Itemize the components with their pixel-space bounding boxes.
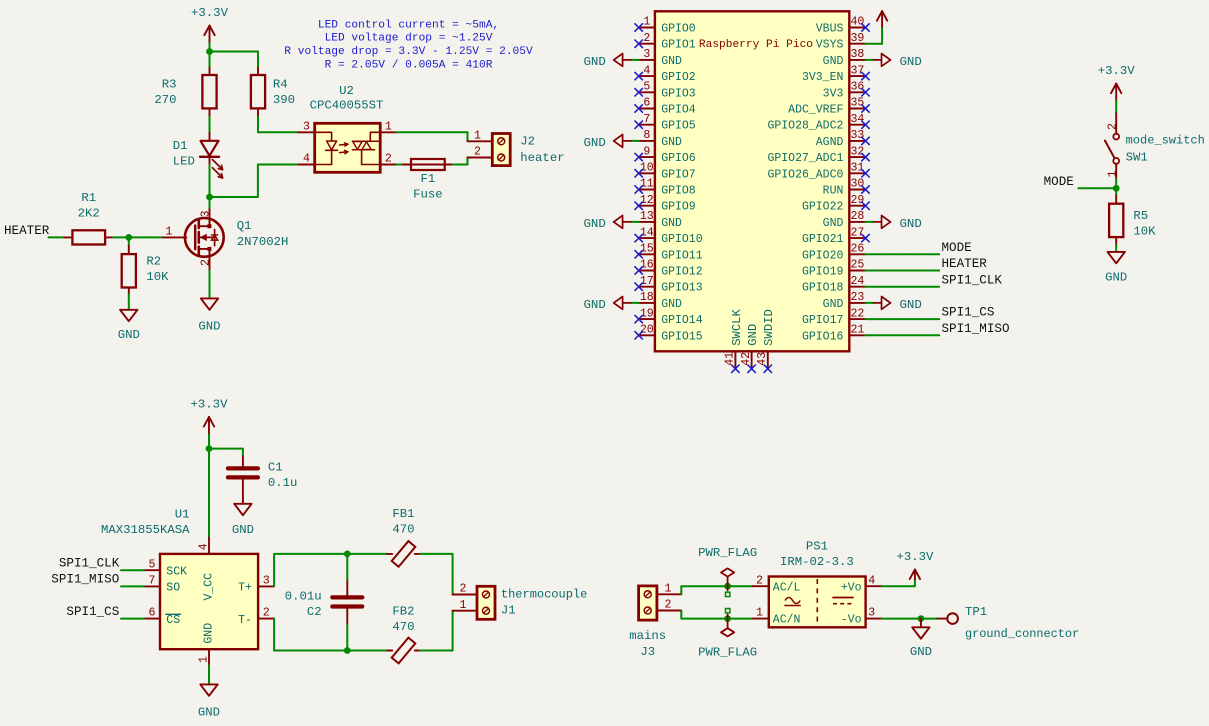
svg-text:CPC40055ST: CPC40055ST (310, 99, 384, 113)
svg-text:3V3_EN: 3V3_EN (802, 71, 843, 84)
pin 2 of Pico (GPIO1) (639, 32, 696, 52)
svg-text:3V3: 3V3 (823, 87, 844, 100)
no-connect X (861, 169, 869, 177)
svg-text:14: 14 (640, 226, 654, 239)
wire (258, 117, 299, 133)
svg-text:PWR_FLAG: PWR_FLAG (698, 546, 757, 560)
svg-text:AC/L: AC/L (773, 581, 801, 594)
svg-text:GND: GND (823, 55, 844, 68)
pin 14 of Pico (GPIO10) (639, 226, 703, 246)
no-connect X (635, 331, 643, 339)
ground (232, 504, 254, 537)
svg-text:GPIO18: GPIO18 (802, 282, 844, 295)
svg-text:+3.3V: +3.3V (896, 550, 934, 564)
no-connect X (861, 72, 869, 80)
svg-text:270: 270 (154, 93, 176, 107)
pin 12 of Pico (GPIO9) (639, 194, 696, 214)
global label GND (583, 216, 630, 231)
svg-text:LED voltage drop = ~1.25V: LED voltage drop = ~1.25V (325, 33, 493, 45)
svg-text:heater: heater (520, 151, 564, 165)
no-connect X (635, 266, 643, 274)
wire (921, 618, 938, 620)
svg-text:GPIO0: GPIO0 (661, 23, 696, 36)
connector J2 heater (492, 134, 564, 166)
svg-text:GND: GND (900, 217, 922, 231)
connector J1 pin 1 (453, 599, 477, 612)
wire (630, 140, 639, 142)
svg-text:2: 2 (200, 259, 213, 266)
pin 4 (V_CC) of U1 (198, 538, 211, 554)
junction (344, 647, 351, 654)
svg-text:1: 1 (165, 226, 172, 239)
wire (866, 221, 874, 223)
svg-text:GND: GND (661, 136, 682, 149)
svg-text:3: 3 (303, 120, 310, 133)
svg-text:1: 1 (198, 656, 211, 663)
svg-text:22: 22 (850, 307, 864, 320)
global label GND (874, 54, 922, 69)
svg-text:MAX31855KASA: MAX31855KASA (101, 523, 190, 537)
svg-text:-Vo: -Vo (841, 614, 862, 627)
wire (1078, 187, 1116, 189)
svg-text:17: 17 (640, 275, 654, 288)
pin 4 (+Vo) of PS1 (866, 574, 882, 587)
wire (866, 59, 874, 61)
svg-text:4: 4 (303, 153, 310, 166)
connector J3 mains (629, 586, 666, 659)
pin 17 of Pico (GPIO13) (639, 275, 703, 295)
pin 6 (CS) of U1 (144, 607, 160, 620)
ground (118, 310, 140, 342)
svg-text:23: 23 (850, 291, 864, 304)
svg-text:470: 470 (392, 620, 414, 634)
SW1 body (1105, 134, 1119, 164)
pin 36 of Pico (3V3) (823, 81, 866, 101)
wire (396, 164, 403, 166)
svg-text:9: 9 (643, 145, 650, 158)
svg-text:J2: J2 (520, 135, 535, 149)
svg-text:3: 3 (200, 211, 213, 218)
svg-text:42: 42 (740, 352, 753, 366)
U2 internal triac (352, 132, 380, 164)
wire (866, 318, 940, 320)
no-connect X (635, 185, 643, 193)
svg-text:TP1: TP1 (965, 605, 987, 619)
transistor Q1 2N7002H (163, 208, 288, 271)
svg-text:GPIO3: GPIO3 (661, 87, 696, 100)
svg-text:J1: J1 (501, 603, 516, 617)
svg-text:LED control current = ~5mA,: LED control current = ~5mA, (318, 19, 499, 31)
no-connect X (635, 72, 643, 80)
svg-text:SPI1_MISO: SPI1_MISO (51, 573, 119, 587)
U1 pin name labels (166, 565, 252, 643)
svg-text:12: 12 (640, 194, 654, 207)
svg-text:ground_connector: ground_connector (965, 627, 1079, 641)
svg-text:Fuse: Fuse (413, 188, 443, 202)
wire (866, 27, 883, 44)
wire (208, 435, 210, 449)
svg-text:7: 7 (643, 113, 650, 126)
svg-text:GND: GND (661, 55, 682, 68)
pin 32 of Pico (GPIO27_ADC1) (767, 145, 865, 165)
power +3.3V (heater driver rail) (191, 6, 229, 43)
svg-text:T-: T- (238, 614, 252, 627)
svg-text:SPI1_CLK: SPI1_CLK (942, 273, 1003, 287)
svg-text:25: 25 (850, 259, 864, 272)
junction (1113, 185, 1120, 192)
svg-text:30: 30 (850, 178, 864, 191)
ground (910, 627, 932, 659)
junction (125, 234, 132, 241)
wire (209, 165, 211, 197)
pin 2 (source) of Q1 (200, 256, 213, 271)
svg-text:6: 6 (149, 607, 156, 620)
svg-text:28: 28 (850, 210, 864, 223)
wire (396, 132, 467, 141)
svg-text:470: 470 (392, 523, 414, 537)
pin 9 of Pico (GPIO6) (639, 145, 696, 165)
global label GND (874, 297, 922, 312)
svg-text:2: 2 (460, 583, 467, 596)
wire (209, 271, 211, 298)
wire (420, 554, 453, 595)
junction (344, 551, 351, 558)
no-connect X (861, 185, 869, 193)
pin 7 of Pico (GPIO5) (639, 113, 696, 133)
wire (128, 237, 130, 246)
no-connect X (635, 40, 643, 48)
no-connect X (861, 23, 869, 31)
svg-text:41: 41 (724, 352, 737, 366)
resistor R3 (154, 68, 216, 117)
wire (128, 294, 130, 309)
svg-text:IRM-02-3.3: IRM-02-3.3 (780, 555, 854, 569)
no-connect X (861, 137, 869, 145)
pin 30 of Pico (RUN) (823, 178, 866, 198)
svg-text:SPI1_CLK: SPI1_CLK (59, 557, 120, 571)
svg-text:GND: GND (823, 217, 844, 230)
svg-text:24: 24 (850, 275, 864, 288)
pin 8 of Pico (GND) (639, 129, 682, 149)
svg-text:GPIO1: GPIO1 (661, 39, 696, 52)
opto-triac U2 CPC40055ST (299, 84, 397, 173)
svg-text:GPIO9: GPIO9 (661, 201, 696, 214)
svg-text:21: 21 (850, 324, 864, 337)
no-connect X (635, 104, 643, 112)
svg-text:1: 1 (756, 607, 763, 620)
pin 3 of U2 (299, 120, 315, 133)
svg-text:38: 38 (850, 48, 864, 61)
svg-text:37: 37 (850, 64, 864, 77)
svg-text:6: 6 (643, 97, 650, 110)
svg-text:PWR_FLAG: PWR_FLAG (698, 645, 757, 659)
pin 2 of SW1 (1106, 114, 1119, 134)
wire (49, 236, 65, 238)
connector J3 pin 2 (657, 599, 681, 612)
svg-text:GPIO26_ADC0: GPIO26_ADC0 (767, 168, 843, 181)
pin 3 (T+) of U1 (258, 575, 274, 588)
junction (206, 48, 213, 55)
pin 23 of Pico (GND) (823, 291, 866, 311)
svg-text:4: 4 (198, 543, 211, 550)
no-connect X (861, 153, 869, 161)
pin 13 of Pico (GND) (639, 210, 682, 230)
svg-text:VSYS: VSYS (816, 39, 844, 52)
svg-text:GND: GND (661, 217, 682, 230)
pin 4 of Pico (GPIO2) (639, 64, 696, 84)
svg-text:SWDID: SWDID (762, 309, 776, 346)
junction (206, 194, 213, 201)
svg-text:1: 1 (665, 582, 672, 595)
switch SW1 mode_switch (1105, 114, 1205, 180)
pin 41 of Pico (SWCLK) (724, 309, 744, 368)
svg-text:2: 2 (643, 32, 650, 45)
wire (121, 618, 144, 620)
svg-text:mode_switch: mode_switch (1126, 134, 1205, 148)
svg-text:SO: SO (166, 582, 180, 595)
junction (918, 615, 925, 622)
resistor R5 (1109, 196, 1156, 246)
no-connect X (861, 88, 869, 96)
pin 29 of Pico (GPIO22) (802, 194, 866, 214)
no-connect X (861, 121, 869, 129)
junction (724, 583, 731, 590)
svg-text:GPIO14: GPIO14 (661, 314, 703, 327)
wire (681, 586, 752, 594)
svg-text:2: 2 (474, 146, 481, 159)
test point TP1 ground_connector (938, 605, 1080, 641)
wire (866, 286, 940, 288)
ferrite bead FB2 (387, 605, 420, 664)
svg-text:34: 34 (850, 113, 864, 126)
wire (113, 236, 129, 238)
svg-text:10: 10 (640, 162, 654, 175)
wire (209, 197, 211, 208)
svg-text:2: 2 (756, 574, 763, 587)
no-connect X (861, 234, 869, 242)
wire (882, 579, 915, 586)
svg-text:GND: GND (900, 298, 922, 312)
ground (198, 684, 220, 719)
wire (681, 611, 752, 619)
svg-text:VBUS: VBUS (816, 23, 844, 36)
pin 37 of Pico (3V3_EN) (802, 64, 866, 84)
no-connect X (635, 88, 643, 96)
capacitor C2 (285, 580, 363, 625)
wire (1115, 101, 1117, 114)
svg-text:36: 36 (850, 81, 864, 94)
svg-text:GND: GND (232, 523, 254, 537)
svg-text:0.1u: 0.1u (268, 476, 298, 490)
svg-text:GPIO11: GPIO11 (661, 249, 703, 262)
Q1 reference and value labels (237, 219, 289, 249)
connector J2 pin 2 (468, 146, 493, 159)
svg-text:31: 31 (850, 162, 864, 175)
pin 3 (drain) of Q1 (200, 208, 213, 219)
wire (866, 253, 940, 255)
svg-text:V_CC: V_CC (202, 573, 215, 601)
wire (866, 334, 940, 336)
svg-text:5: 5 (643, 81, 650, 94)
note: LED resistor calculation (284, 19, 533, 71)
svg-text:GPIO22: GPIO22 (802, 201, 844, 214)
wire (1115, 245, 1117, 251)
svg-text:GPIO2: GPIO2 (661, 71, 696, 84)
svg-text:4: 4 (643, 64, 650, 77)
pin 1 of Pico (GPIO0) (639, 16, 696, 36)
svg-text:+3.3V: +3.3V (1098, 64, 1136, 78)
svg-text:16: 16 (640, 259, 654, 272)
svg-text:GND: GND (823, 298, 844, 311)
svg-text:GND: GND (202, 623, 215, 644)
PS1 reference and value labels (780, 539, 854, 569)
pin 15 of Pico (GPIO11) (639, 243, 703, 263)
wire (210, 165, 299, 198)
svg-text:19: 19 (640, 307, 654, 320)
pin 1 of U2 (380, 120, 396, 133)
wire (1115, 179, 1117, 188)
svg-text:RUN: RUN (823, 185, 844, 198)
pin 18 of Pico (GND) (639, 291, 682, 311)
resistor R4 (251, 68, 295, 117)
svg-text:MODE: MODE (1044, 175, 1074, 189)
global label GND (583, 297, 630, 312)
connector J2 pin 1 (468, 129, 493, 142)
svg-text:R = 2.05V / 0.005A = 410R: R = 2.05V / 0.005A = 410R (325, 59, 493, 71)
svg-text:8: 8 (643, 129, 650, 142)
pin 10 of Pico (GPIO7) (639, 162, 696, 182)
fuse F1 (403, 159, 453, 202)
svg-text:1: 1 (643, 16, 650, 29)
svg-text:R4: R4 (273, 78, 288, 92)
svg-text:R5: R5 (1133, 209, 1148, 223)
pin 1 of SW1 (1106, 164, 1119, 179)
svg-text:R3: R3 (162, 78, 177, 92)
wire (346, 624, 348, 650)
pin 16 of Pico (GPIO12) (639, 259, 703, 279)
svg-text:GND: GND (583, 136, 605, 150)
pin 2 of U2 (380, 153, 396, 166)
pin 40 of Pico (VBUS) (816, 16, 866, 36)
svg-text:GPIO20: GPIO20 (802, 249, 844, 262)
wire (866, 270, 940, 272)
svg-text:SPI1_CS: SPI1_CS (66, 605, 119, 619)
SW1 reference and value labels (1126, 134, 1205, 165)
svg-text:11: 11 (640, 178, 654, 191)
svg-text:HEATER: HEATER (4, 224, 50, 238)
pin 1 (GND) of U1 (198, 649, 211, 665)
svg-text:CS: CS (166, 614, 180, 627)
svg-text:20: 20 (640, 324, 654, 337)
PWR_FLAG (line) (698, 546, 757, 596)
no-connect X (635, 121, 643, 129)
wire (274, 554, 347, 587)
pin 38 of Pico (GND) (823, 48, 866, 68)
pin 39 of Pico (VSYS) (816, 32, 866, 52)
svg-text:R1: R1 (81, 191, 96, 205)
pin 6 of Pico (GPIO4) (639, 97, 696, 117)
svg-text:GND: GND (583, 55, 605, 69)
svg-text:40: 40 (850, 16, 864, 29)
svg-text:mains: mains (629, 629, 666, 643)
Q1 body (185, 218, 224, 257)
svg-text:13: 13 (640, 210, 654, 223)
LED D1 (173, 133, 223, 178)
no-connect X (635, 283, 643, 291)
svg-text:4: 4 (868, 574, 875, 587)
svg-text:GPIO5: GPIO5 (661, 120, 696, 133)
wire (347, 553, 387, 555)
junction (206, 445, 213, 452)
svg-text:GPIO13: GPIO13 (661, 282, 703, 295)
wire (121, 585, 144, 587)
svg-text:1: 1 (474, 129, 481, 142)
svg-text:0.01u: 0.01u (285, 589, 322, 603)
pin 3 of Pico (GND) (639, 48, 682, 68)
svg-text:U2: U2 (339, 84, 354, 98)
pin 2 (AC/L) of PS1 (753, 574, 769, 587)
no-connect X (635, 23, 643, 31)
wire (209, 52, 211, 68)
pin 4 of U2 (299, 153, 315, 166)
connector J1 pin 2 (453, 583, 477, 596)
svg-text:ADC_VREF: ADC_VREF (788, 104, 843, 117)
svg-text:GPIO19: GPIO19 (802, 266, 844, 279)
wire (208, 665, 210, 684)
wire (208, 449, 210, 538)
svg-text:GND: GND (583, 217, 605, 231)
svg-text:GND: GND (198, 705, 220, 719)
wire (453, 158, 468, 165)
svg-text:+3.3V: +3.3V (191, 6, 229, 20)
svg-text:GPIO17: GPIO17 (802, 314, 843, 327)
svg-text:C2: C2 (307, 605, 322, 619)
wire (420, 611, 453, 651)
pin 7 (SO) of U1 (144, 575, 160, 588)
svg-text:GND: GND (910, 645, 932, 659)
svg-text:thermocouple: thermocouple (501, 587, 587, 601)
svg-text:35: 35 (850, 97, 864, 110)
svg-text:C1: C1 (268, 461, 283, 475)
svg-text:GPIO6: GPIO6 (661, 152, 696, 165)
svg-text:43: 43 (756, 352, 769, 366)
svg-text:GPIO12: GPIO12 (661, 266, 703, 279)
no-connect X (731, 365, 739, 373)
svg-text:390: 390 (273, 93, 295, 107)
no-connect X (747, 365, 755, 373)
svg-text:SCK: SCK (166, 565, 187, 578)
svg-text:D1: D1 (173, 139, 188, 153)
pin 19 of Pico (GPIO14) (639, 307, 703, 327)
pin 43 of Pico (SWDID) (756, 309, 776, 367)
pin 33 of Pico (AGND) (816, 129, 866, 149)
svg-text:18: 18 (640, 291, 654, 304)
wire (129, 236, 163, 238)
capacitor C1 (228, 456, 298, 503)
svg-text:29: 29 (850, 194, 864, 207)
pin 35 of Pico (ADC_VREF) (788, 97, 865, 117)
power supply PS1 IRM-02-3.3 (753, 539, 882, 627)
junction (724, 615, 731, 622)
svg-text:GPIO10: GPIO10 (661, 233, 703, 246)
pin 5 of Pico (GPIO3) (639, 81, 696, 101)
svg-text:GPIO4: GPIO4 (661, 104, 696, 117)
svg-text:2K2: 2K2 (78, 206, 100, 220)
no-connect X (635, 169, 643, 177)
no-connect X (635, 202, 643, 210)
svg-text:R2: R2 (146, 255, 161, 269)
svg-text:3: 3 (643, 48, 650, 61)
